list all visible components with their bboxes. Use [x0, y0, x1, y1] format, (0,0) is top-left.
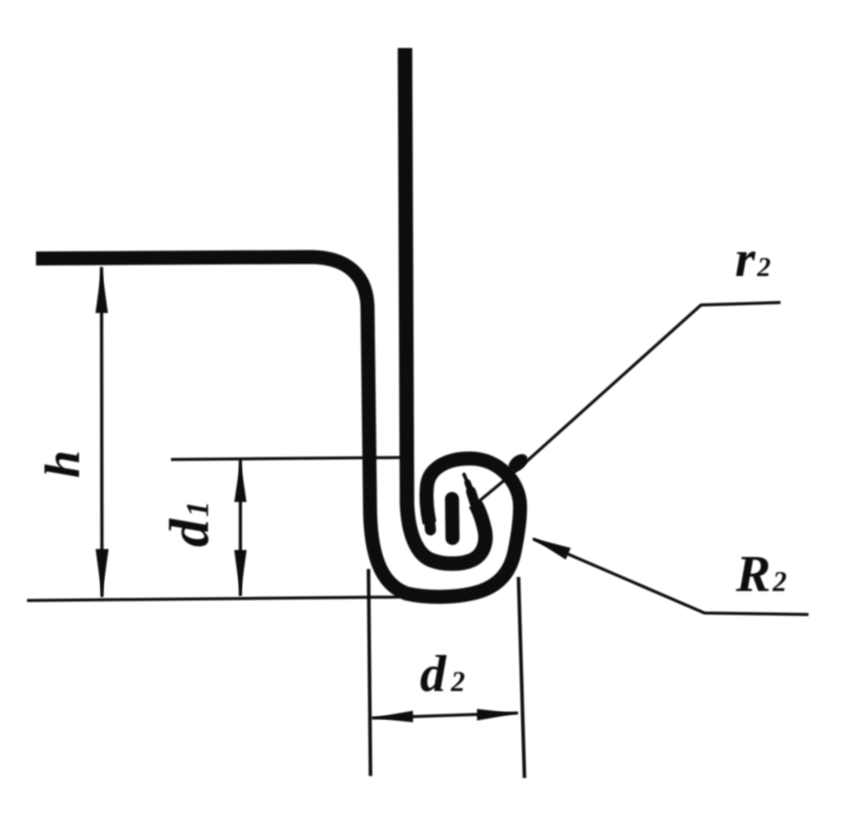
svg-text:r2: r2: [735, 231, 771, 288]
svg-text:h: h: [34, 450, 90, 478]
svg-text:d2: d2: [420, 646, 465, 703]
svg-text:R2: R2: [735, 546, 787, 603]
svg-text:d1: d1: [159, 501, 221, 547]
